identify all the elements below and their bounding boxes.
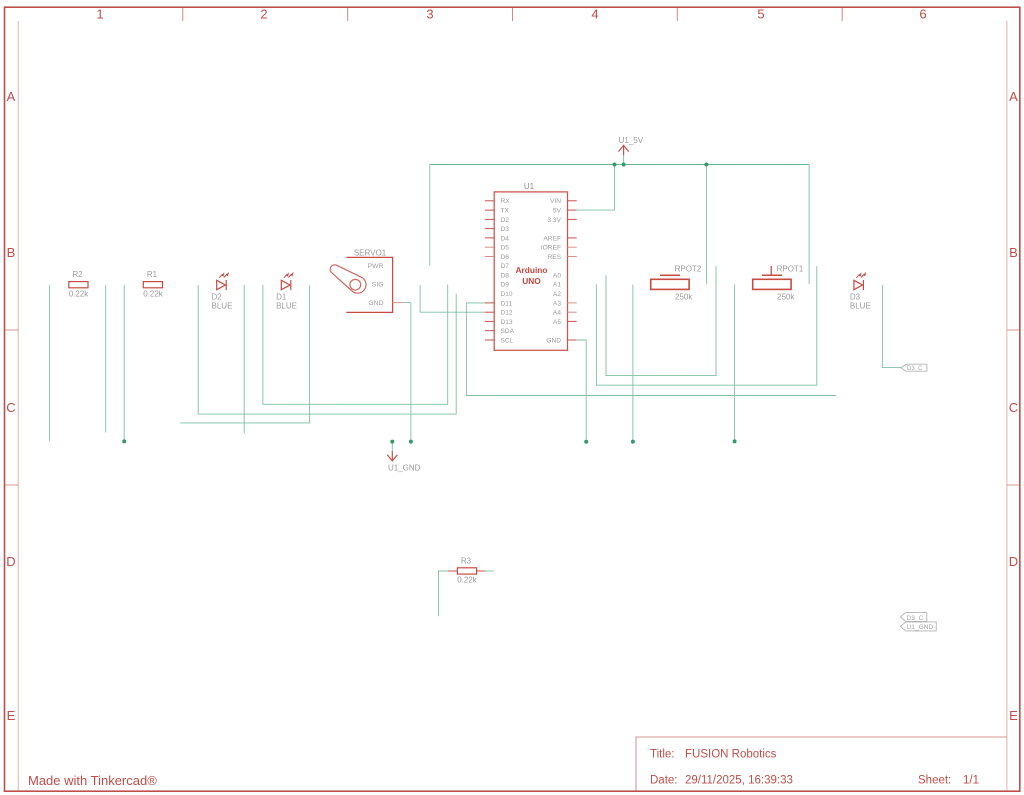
svg-text:E: E [7, 708, 16, 723]
svg-text:0.22k: 0.22k [457, 576, 478, 585]
net tag D3_C upper [901, 364, 927, 372]
svg-text:4: 4 [591, 6, 598, 21]
svg-text:D12: D12 [501, 310, 513, 317]
junction rail at arrow [622, 163, 626, 167]
wire R2 right [105, 285, 107, 433]
wire 5V top rail [430, 164, 809, 166]
svg-text:Arduino: Arduino [515, 265, 547, 275]
svg-text:D3_C: D3_C [907, 615, 924, 622]
junction U1 gnd [584, 440, 588, 444]
svg-text:2: 2 [260, 6, 267, 21]
LED D2 [212, 272, 233, 311]
svg-text:BLUE: BLUE [850, 302, 871, 311]
svg-text:D2: D2 [501, 217, 510, 224]
wire D2 anode to D10 [198, 285, 456, 414]
svg-text:UNO: UNO [522, 276, 541, 286]
svg-text:GND: GND [546, 337, 561, 344]
svg-text:D1: D1 [276, 292, 287, 301]
junction dots [122, 163, 736, 444]
svg-text:29/11/2025, 16:39:33: 29/11/2025, 16:39:33 [685, 775, 793, 787]
junction rail at RPOT2 [704, 163, 708, 167]
svg-text:Date:: Date: [650, 775, 678, 787]
svg-text:Made with Tinkercad®: Made with Tinkercad® [28, 773, 157, 788]
wire RPOT2 left down [632, 284, 634, 441]
svg-text:5V: 5V [553, 208, 562, 215]
wire U1 GND down [577, 340, 586, 442]
svg-text:R2: R2 [72, 270, 83, 279]
resistor R2 [69, 270, 90, 298]
row tick B/C left [5, 329, 19, 331]
svg-text:SCL: SCL [501, 337, 514, 344]
row tick C/D left [5, 484, 19, 486]
svg-text:D10: D10 [501, 291, 513, 298]
LED D2 symbol [217, 272, 229, 290]
power symbol U1_5V [619, 145, 629, 155]
RPOT2 body [651, 279, 689, 289]
title block [28, 737, 1007, 791]
svg-text:PWR: PWR [368, 263, 384, 270]
column tick 4/5 [676, 7, 678, 21]
svg-text:A0: A0 [553, 272, 561, 279]
svg-text:D: D [1009, 554, 1018, 569]
R1 body [143, 282, 162, 288]
svg-text:FUSION Robotics: FUSION Robotics [685, 749, 777, 761]
svg-text:SDA: SDA [501, 328, 515, 335]
SERVO1 box [346, 257, 392, 312]
svg-text:RPOT2: RPOT2 [675, 265, 702, 274]
svg-text:IOREF: IOREF [541, 245, 561, 252]
LED D1 symbol [281, 272, 293, 290]
svg-text:D5: D5 [501, 245, 510, 252]
wire rail to RPOT2 right [705, 165, 707, 285]
svg-text:BLUE: BLUE [276, 302, 297, 311]
RPOT1 wiper bar [762, 274, 782, 276]
svg-text:A3: A3 [553, 300, 561, 307]
svg-text:C: C [6, 400, 15, 415]
svg-text:Sheet:: Sheet: [918, 775, 951, 787]
wire D1 anode to SIG net [263, 285, 448, 405]
junction RPOT2 gnd [631, 440, 635, 444]
U1 pin stubs [485, 201, 577, 340]
border inner right line [1006, 21, 1008, 791]
svg-text:D7: D7 [501, 263, 510, 270]
svg-text:A: A [1009, 89, 1018, 104]
ground symbol U1_GND [387, 451, 397, 461]
svg-text:D3: D3 [501, 226, 510, 233]
LED D3 [850, 272, 871, 311]
svg-text:1: 1 [96, 6, 103, 21]
svg-text:D2: D2 [212, 292, 223, 301]
svg-text:AREF: AREF [543, 235, 561, 242]
servo SERVO1 [330, 248, 402, 312]
column tick 1/2 [182, 7, 184, 21]
svg-text:A2: A2 [553, 291, 561, 298]
svg-text:1/1: 1/1 [963, 775, 979, 787]
row tick C/D right [1007, 484, 1020, 486]
column tick 5/6 [841, 7, 843, 21]
svg-text:RES: RES [547, 254, 561, 261]
column tick 2/3 [347, 7, 349, 21]
column tick 3/4 [512, 7, 514, 21]
svg-text:A1: A1 [553, 282, 561, 289]
wire D12 net [420, 285, 485, 312]
junction gnd arrow [390, 440, 394, 444]
svg-text:3: 3 [426, 6, 433, 21]
wire D1 cathode to R1 [180, 285, 310, 423]
wire servo GND down [402, 303, 411, 442]
border inner left line [17, 21, 19, 791]
svg-text:A5: A5 [553, 319, 561, 326]
SERVO1 GND stub [393, 302, 403, 304]
R3 body and leads [457, 568, 476, 574]
IC U1 Arduino UNO [485, 182, 577, 350]
svg-text:6: 6 [919, 6, 926, 21]
svg-text:D4: D4 [501, 235, 510, 242]
wire rail to RPOT1 right [808, 165, 810, 285]
RPOT1 body [753, 279, 791, 289]
resistor R1 [143, 270, 164, 298]
LED D1 [276, 272, 297, 311]
svg-text:D8: D8 [501, 272, 510, 279]
wire rail to servo PWR [429, 165, 431, 266]
wire 5V arrow stem lower [623, 155, 625, 165]
wire R1 left [123, 285, 125, 442]
wire RPOT1 wiper to A1 [596, 266, 816, 385]
SERVO1 pin labels [368, 263, 384, 307]
wire RPOT2 wiper to A0 [606, 266, 716, 376]
svg-text:U1_GND: U1_GND [388, 464, 421, 473]
svg-text:GND: GND [368, 300, 383, 307]
svg-text:RPOT1: RPOT1 [777, 265, 804, 274]
svg-text:0.22k: 0.22k [143, 289, 164, 298]
LED D3 symbol [854, 272, 866, 290]
title block top line [636, 736, 1007, 738]
wire D11 to D3 anode [466, 303, 836, 396]
svg-text:B: B [7, 245, 16, 260]
svg-text:R1: R1 [147, 270, 158, 279]
R2 body [69, 282, 88, 288]
svg-text:R3: R3 [461, 557, 472, 566]
svg-text:5: 5 [757, 6, 764, 21]
svg-text:250k: 250k [675, 293, 693, 302]
wire GND arrow stem upper [391, 442, 393, 451]
svg-text:VIN: VIN [550, 198, 561, 205]
row tick B/C right [1007, 329, 1020, 331]
svg-text:C: C [1009, 400, 1018, 415]
svg-text:D13: D13 [501, 319, 513, 326]
svg-text:D: D [6, 554, 15, 569]
svg-text:D3_C: D3_C [907, 366, 923, 372]
svg-text:U1_GND: U1_GND [907, 624, 934, 631]
potentiometer RPOT2 [651, 265, 702, 302]
svg-text:Title:: Title: [650, 749, 675, 761]
junction rail at 5V branch [613, 163, 617, 167]
svg-text:U1_5V: U1_5V [619, 136, 644, 145]
wire U1 5V pin branch [577, 165, 615, 211]
wire R3 left [439, 571, 449, 616]
junction R1 gnd [122, 439, 126, 443]
svg-text:250k: 250k [777, 293, 795, 302]
svg-text:A: A [7, 89, 16, 104]
wire R2 left [49, 285, 51, 441]
wire RPOT1 left down [734, 284, 736, 441]
SERVO1 horn [330, 265, 366, 293]
RPOT2 wiper bar [660, 274, 680, 276]
junction RPOT1 gnd [733, 439, 737, 443]
wire D3 cathode to tag [883, 285, 901, 368]
svg-text:TX: TX [501, 208, 510, 215]
svg-text:RX: RX [501, 198, 511, 205]
svg-text:SIG: SIG [372, 282, 384, 289]
junction servo gnd [409, 440, 413, 444]
svg-text:A4: A4 [553, 310, 561, 317]
RPOT1 wiper stem [770, 266, 772, 275]
net tag D3_C lower [900, 613, 926, 622]
svg-text:D11: D11 [501, 300, 513, 307]
svg-text:D3: D3 [850, 292, 861, 301]
svg-text:D6: D6 [501, 254, 510, 261]
U1 pin labels [501, 198, 562, 344]
wire R3 right [485, 570, 494, 572]
title block left line [635, 737, 637, 791]
svg-text:SERVO1: SERVO1 [354, 248, 387, 257]
svg-text:U1: U1 [524, 182, 535, 191]
resistor R3 [448, 557, 485, 585]
wire D2 cathode [243, 285, 245, 434]
net tag U1_GND lower [900, 622, 936, 631]
svg-text:BLUE: BLUE [212, 302, 233, 311]
svg-text:3.3V: 3.3V [547, 217, 561, 224]
svg-text:B: B [1009, 245, 1018, 260]
svg-text:E: E [1009, 708, 1018, 723]
potentiometer RPOT1 [753, 265, 804, 302]
svg-text:0.22k: 0.22k [69, 289, 90, 298]
svg-text:D9: D9 [501, 282, 510, 289]
U1 box [494, 192, 567, 350]
